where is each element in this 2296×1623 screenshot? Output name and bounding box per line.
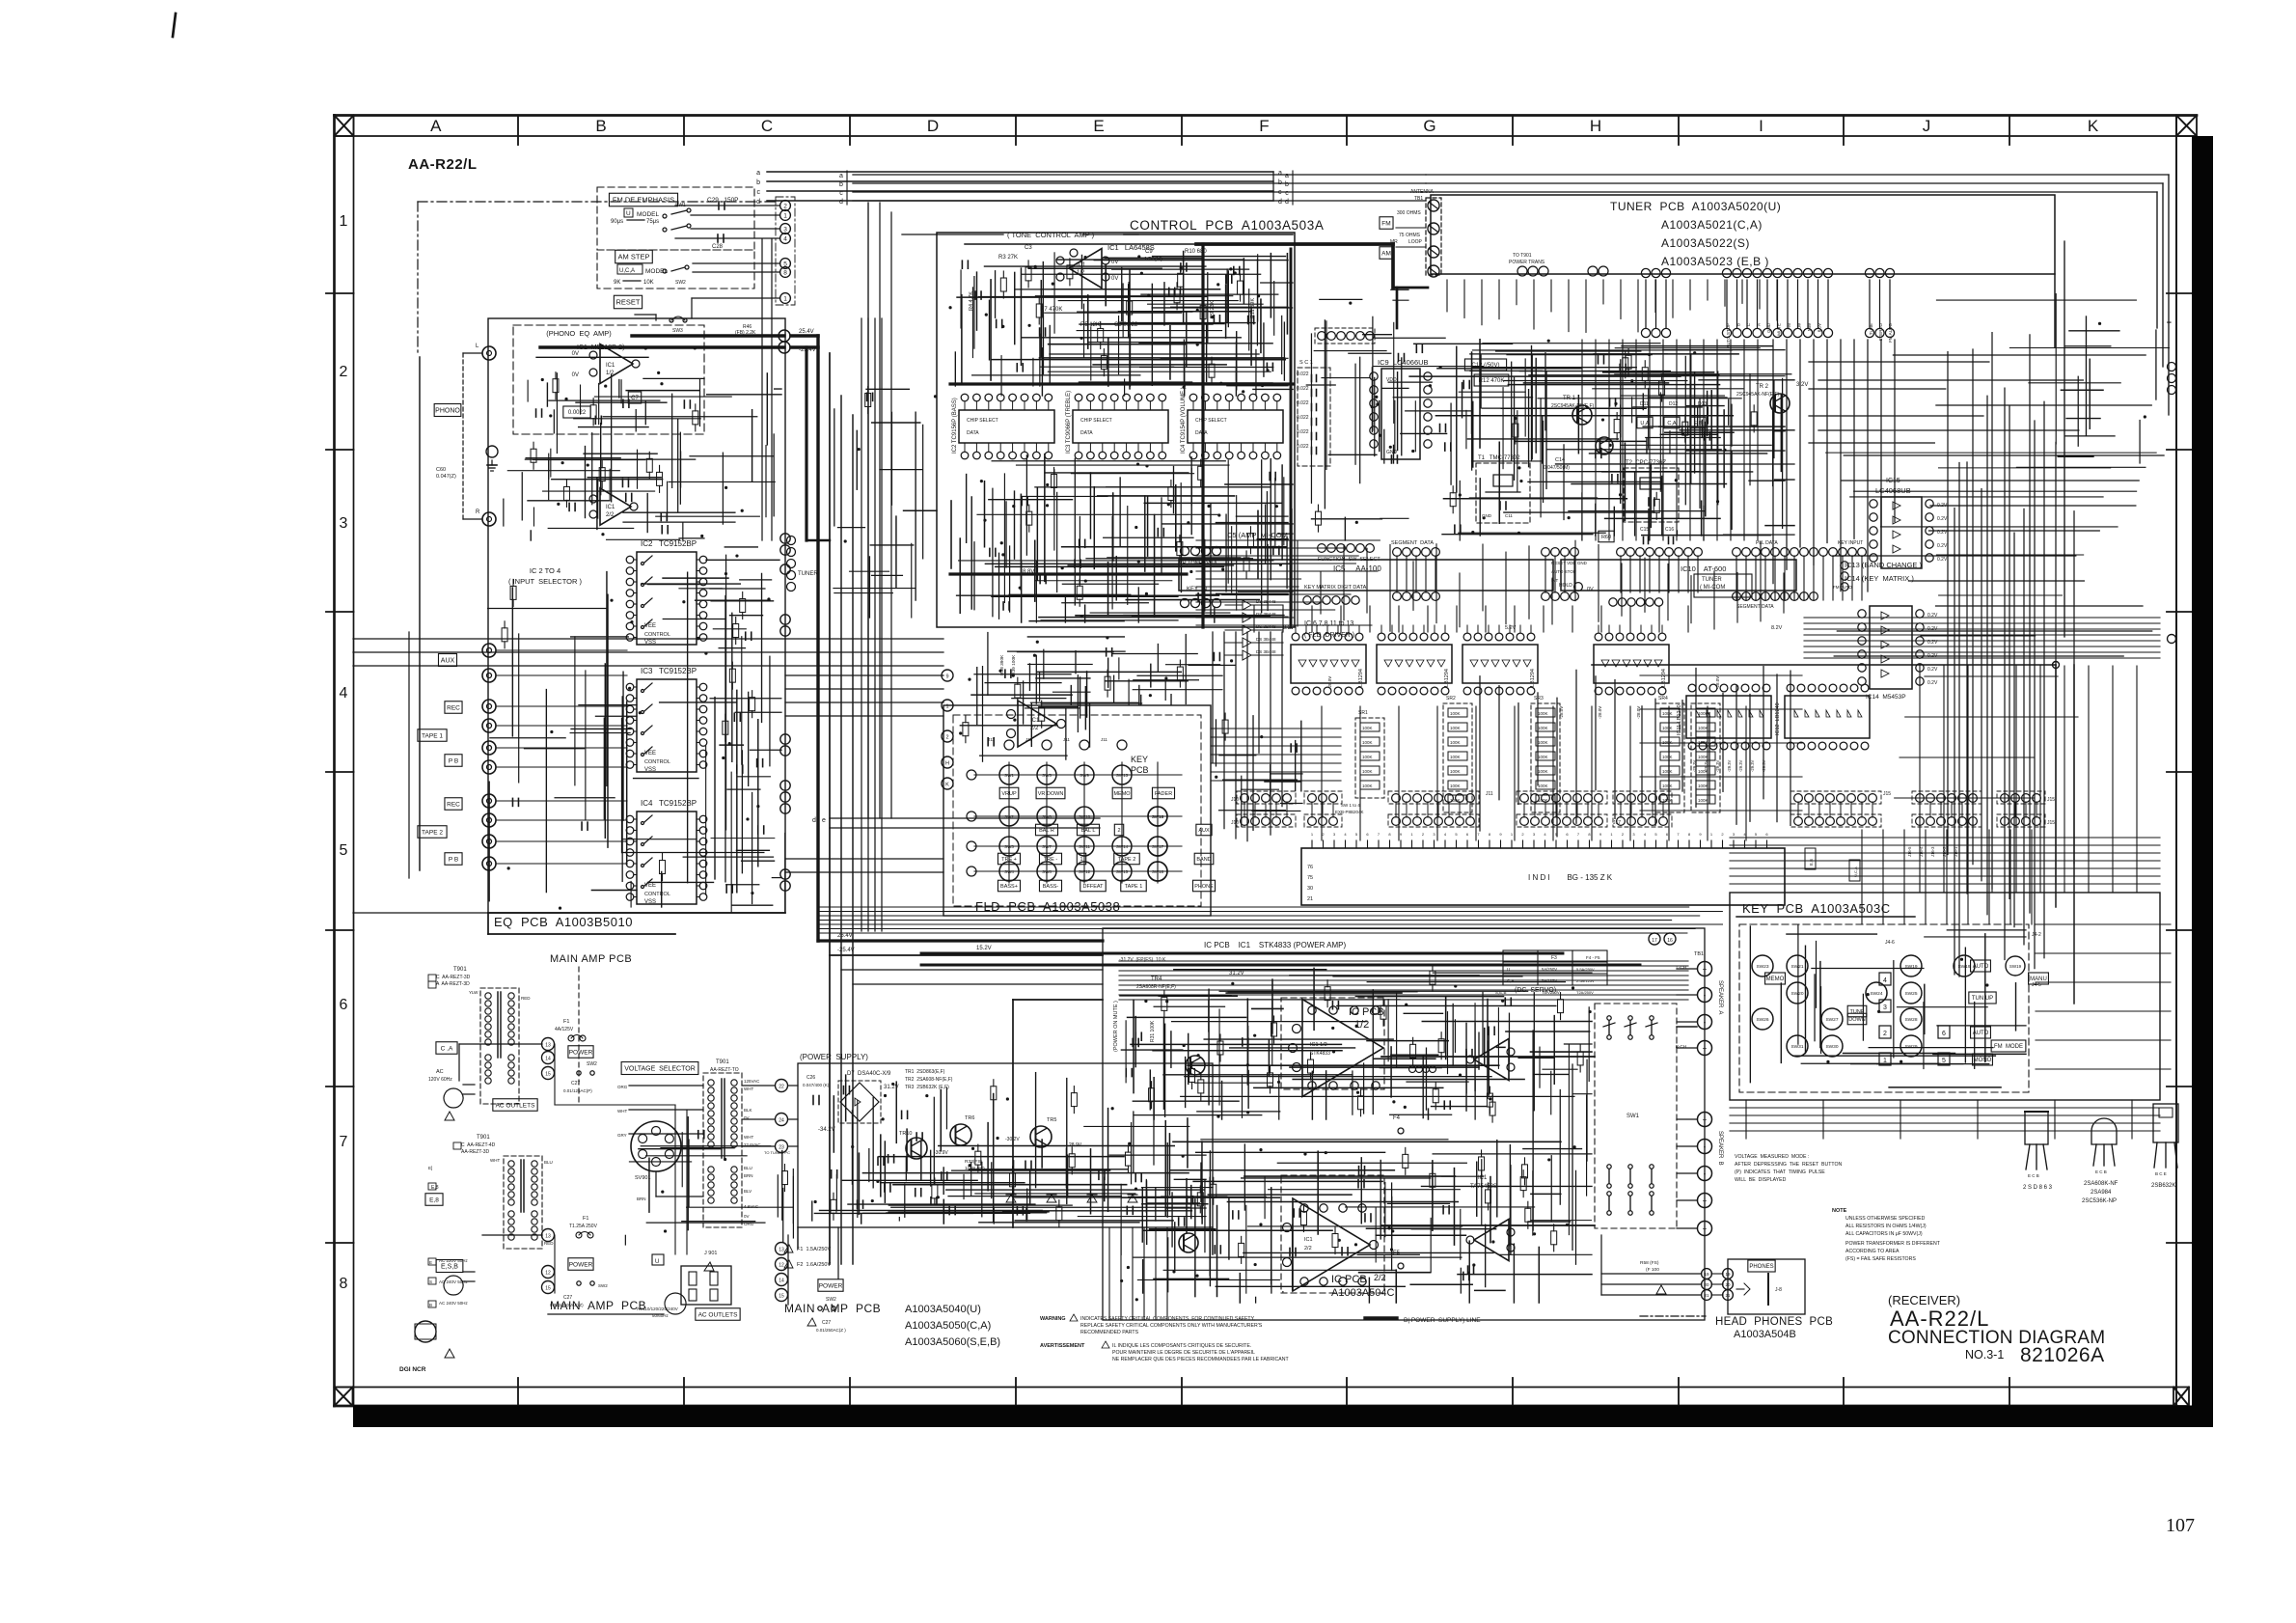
svg-text:(RECEIVER): (RECEIVER) (1888, 1293, 1960, 1307)
svg-text:F4: F4 (1393, 1115, 1401, 1121)
svg-text:REPLACE SAFETY CRITICAL COMPON: REPLACE SAFETY CRITICAL COMPONENTS ONLY … (1080, 1323, 1263, 1329)
svg-text:C15: C15 (1640, 527, 1649, 533)
svg-text:TAPE 2: TAPE 2 (422, 829, 443, 836)
svg-text:IC9 LC4066UB: IC9 LC4066UB (1378, 358, 1429, 367)
frame left inner line (353, 116, 355, 1407)
svg-text:A1003A5050(C,A): A1003A5050(C,A) (905, 1320, 991, 1332)
svg-text:R58 (FS): R58 (FS) (1640, 1260, 1659, 1266)
power amp opamp upper (1302, 1000, 1383, 1097)
svg-text:ACCORDING TO AREA: ACCORDING TO AREA (1845, 1249, 1900, 1254)
svg-text:EQ PCB A1003B5010: EQ PCB A1003B5010 (494, 915, 633, 929)
svg-text:(P) INDICATES THAT TIMING: (P) INDICATES THAT TIMING PULSE (1735, 1169, 1825, 1175)
PB label tape1 (445, 755, 462, 767)
svg-text:A1003A5040(U): A1003A5040(U) (905, 1304, 981, 1315)
TR1 transistor (1572, 405, 1592, 425)
svg-text:VEE: VEE (644, 623, 656, 629)
TR5 transistor (1030, 1126, 1052, 1147)
svg-text:T1.25A 250V: T1.25A 250V (569, 1224, 598, 1229)
relay SW1 dashed box (1595, 1004, 1677, 1228)
main amp interior extra (1533, 993, 1535, 1111)
IC LB1294 block at x=1427 (1377, 645, 1452, 683)
svg-text:0V: 0V (572, 351, 579, 357)
left edge wiring rows 6-8 (681, 1133, 683, 1187)
power supply interior extra (833, 1096, 834, 1152)
svg-text:S: S (429, 1279, 432, 1284)
svg-text:17: 17 (1652, 938, 1657, 944)
svg-text:WHT: WHT (490, 1158, 500, 1163)
bridge rectifier dashed (838, 1081, 881, 1123)
power supply component strings (981, 1162, 983, 1216)
frame left outer line (333, 116, 336, 1407)
svg-text:TUNER PCB A1003A5020(U): TUNER PCB A1003A5020(U) (1610, 200, 1781, 213)
svg-text:3: 3 (783, 227, 787, 234)
switch SW17 (1148, 837, 1167, 856)
svg-text:J: J (1923, 117, 1931, 135)
S marker (428, 1278, 436, 1284)
svg-text:15: 15 (545, 1072, 551, 1078)
svg-text:E,B: E,B (1809, 859, 1814, 866)
svg-text:F1 1.5A/250V: F1 1.5A/250V (797, 1247, 831, 1252)
PHONO input jacks (482, 346, 496, 360)
svg-text:SW25: SW25 (1904, 991, 1917, 997)
warn triangle plug (445, 1112, 454, 1120)
svg-text:0.0022: 0.0022 (568, 410, 587, 416)
reset switch SW3 (635, 314, 656, 316)
svg-text:STEREO: STEREO (1878, 323, 1883, 342)
speaker feed lines (1381, 1056, 1595, 1058)
svg-text:2/2: 2/2 (1304, 1246, 1312, 1252)
svg-text:PLL DATA: PLL DATA (1756, 540, 1778, 546)
switch SW30 (1821, 1035, 1843, 1057)
right switch circles (1148, 807, 1167, 826)
key function labels row3 (998, 853, 1020, 865)
svg-text:BLU: BLU (544, 1160, 553, 1165)
C,A label box (436, 1042, 457, 1055)
svg-text:BLK: BLK (744, 1108, 752, 1113)
FM auto stereo pins (1841, 562, 1848, 569)
switch SW18 (1148, 862, 1167, 881)
verticals FLD to INDI (1321, 706, 1323, 840)
svg-text:POWER: POWER (569, 1049, 593, 1056)
svg-text:-28.0V: -28.0V (1636, 706, 1641, 719)
switch SW12 (1075, 862, 1094, 881)
svg-text:15: 15 (545, 1286, 551, 1292)
svg-text:120V 60Hz: 120V 60Hz (428, 1077, 452, 1083)
svg-text:PCB: PCB (1131, 765, 1149, 775)
KEY PCB inner dashed (1739, 924, 2029, 1092)
mains wires lower (482, 1234, 542, 1236)
svg-text:SW1: SW1 (1626, 1114, 1640, 1119)
tuner bottom connector row J3 (1865, 268, 1873, 277)
svg-text:9K: 9K (614, 280, 620, 286)
key pcb feed lines from top (1861, 830, 1863, 924)
svg-text:75: 75 (1307, 875, 1313, 881)
svg-text:LB1294: LB1294 (1358, 669, 1364, 687)
svg-text:UNLESS OTHERWISE SPECIFIED: UNLESS OTHERWISE SPECIFIED (1845, 1216, 1926, 1222)
svg-text:19: 19 (1704, 1272, 1709, 1277)
wiring texture control interior extra (1032, 358, 1034, 386)
function sw select pins (1318, 544, 1326, 553)
svg-text:3: 3 (1883, 1004, 1887, 1011)
corner register mark bottom-left (335, 1388, 353, 1407)
transistor lower left (1179, 1233, 1198, 1252)
svg-text:WHT: WHT (744, 1087, 753, 1091)
svg-text:MEMO: MEMO (1766, 977, 1785, 982)
thick power rails main amp (921, 952, 1563, 955)
svg-text:100K: 100K (1698, 726, 1708, 730)
wires from EQ right edge to FLD (785, 674, 943, 676)
svg-text:SR3: SR3 (1534, 696, 1544, 701)
IC10 pin rows (1542, 548, 1550, 557)
svg-text:13: 13 (545, 1043, 551, 1049)
svg-text:VR DOWN: VR DOWN (1038, 791, 1064, 797)
svg-text:AUTO: AUTO (1973, 964, 1989, 970)
svg-text:E: E (1093, 117, 1104, 135)
FM label (1380, 217, 1393, 230)
a b c lines continue to right edge (1426, 174, 2169, 176)
speaker wires (1677, 968, 1697, 970)
verticals SR4 to connector rows (1641, 706, 1643, 816)
switch SW2 (999, 807, 1019, 826)
key in pins (1180, 598, 1189, 607)
AUX label (438, 654, 456, 667)
svg-text:FM AUTO: FM AUTO (1888, 323, 1893, 343)
svg-text:E]: E] (428, 1166, 432, 1170)
switch SW8 (1037, 862, 1056, 881)
IC block IC2 (959, 410, 1054, 443)
TAPE 2 label (418, 826, 447, 839)
svg-text:MAIN AMP PCB: MAIN AMP PCB (550, 953, 632, 965)
svg-text:0.047(Z): 0.047(Z) (436, 474, 456, 480)
warn triangle (1656, 1285, 1666, 1294)
a b c d bus lines (853, 174, 1426, 176)
svg-text:E,S,B: E,S,B (441, 1264, 458, 1271)
svg-text:BRN: BRN (637, 1197, 646, 1201)
svg-text:WARNING: WARNING (1040, 1316, 1066, 1322)
svg-text:MAIN AMP PCB: MAIN AMP PCB (550, 1299, 646, 1312)
svg-text:A: A (1757, 323, 1762, 326)
power node pins 25.4V (779, 330, 790, 342)
svg-text:T2A/250V: T2A/250V (1576, 990, 1594, 995)
right vertical wire bundle (1947, 352, 1949, 855)
svg-text:+: + (1703, 1115, 1708, 1124)
wiring texture tuner connectors to micom (1581, 340, 1583, 540)
switch SW26 (1752, 1008, 1773, 1030)
svg-text:BAL R: BAL R (1039, 828, 1054, 834)
power amp opamp lower (1293, 1198, 1370, 1291)
C12 R12 labels (1464, 359, 1506, 371)
transistor package 2SB632K (2153, 1104, 2178, 1142)
svg-text:VSS: VSS (644, 767, 656, 773)
svg-text:24: 24 (779, 1118, 784, 1124)
svg-text:A AA-REZT-3D: A AA-REZT-3D (436, 981, 470, 987)
svg-text:IC2 TC9152BP: IC2 TC9152BP (641, 539, 697, 548)
svg-text:-29.3V: -29.3V (1750, 759, 1755, 772)
thick vertical buses in control PCB (1201, 244, 1204, 627)
svg-text:8.5V: 8.5V (1818, 323, 1822, 332)
svg-text:a: a (839, 173, 843, 179)
scan shadow bar right edge (2192, 136, 2213, 1427)
svg-text:821026A: 821026A (2020, 1344, 2105, 1366)
svg-text:B: B (429, 1303, 432, 1307)
TAPE2 jacks (482, 794, 496, 808)
svg-text:0.2V: 0.2V (1937, 557, 1948, 563)
svg-text:300 OHMS: 300 OHMS (1397, 210, 1421, 216)
svg-text:WHT: WHT (617, 1109, 627, 1114)
svg-text:IC1: IC1 (1478, 1175, 1488, 1181)
svg-text:2/2: 2/2 (606, 512, 615, 518)
svg-text:R11 39K: R11 39K (1250, 298, 1256, 318)
bi power supply legend (1365, 1316, 1397, 1319)
svg-text:13: 13 (779, 1248, 784, 1253)
svg-text:SPEAKER A: SPEAKER A (1717, 980, 1723, 1014)
svg-text:100K: 100K (1662, 755, 1673, 759)
svg-text:POUR MAINTENIR LE DEGRE DE SEC: POUR MAINTENIR LE DEGRE DE SECURITE DE L… (1112, 1350, 1255, 1356)
svg-text:I N D I BG - 135 Z K: I N D I BG - 135 Z K (1528, 873, 1613, 882)
key pcb area horizontals extra (2036, 923, 2171, 925)
switch SW28 (1900, 1008, 1922, 1030)
svg-text:100K: 100K (1450, 726, 1461, 730)
svg-text:TUN UP: TUN UP (1972, 996, 1993, 1002)
svg-text:R31 100K: R31 100K (1150, 1020, 1156, 1042)
svg-text:C: C (761, 117, 773, 135)
svg-text:100K: 100K (1450, 769, 1461, 774)
wires upper mains (459, 1043, 542, 1045)
switch SW10 (1075, 807, 1094, 826)
IC LB1294 block at x=1516 (1462, 645, 1538, 683)
svg-text:J4-5: J4-5 (2032, 982, 2041, 988)
switch SW11 (1075, 837, 1094, 856)
svg-text:100K: 100K (1698, 784, 1708, 788)
svg-text:B: B (595, 117, 606, 135)
relay contacts C (1608, 1197, 1610, 1210)
sw19 upper right (2006, 956, 2025, 976)
svg-text:F1: F1 (563, 1019, 569, 1025)
verticals EQ to row6 (761, 239, 763, 540)
svg-text:6: 6 (1942, 1031, 1946, 1037)
horizontal bundle above main amp extra (820, 906, 1689, 908)
svg-text:1: 1 (945, 704, 948, 710)
wiring texture tuner lower extra (1749, 373, 1751, 484)
svg-text:TUNER: TUNER (1702, 577, 1722, 583)
svg-text:2: 2 (1883, 1031, 1887, 1037)
svg-text:AC 220V 50Hz: AC 220V 50Hz (439, 1258, 469, 1263)
svg-text:J15: J15 (2047, 820, 2055, 826)
row3-4 horizontals D-E columns (1196, 539, 1380, 541)
warn triangle lower (445, 1349, 454, 1358)
svg-text:0.022: 0.022 (1297, 371, 1309, 377)
svg-text:CONTROL: CONTROL (644, 759, 670, 765)
power supply outline (798, 1063, 1213, 1227)
control IC wiring below (1265, 505, 1267, 563)
svg-text:DATA: DATA (1080, 430, 1093, 436)
svg-text:IL INDIQUE LES COMPOSANTS CRIT: IL INDIQUE LES COMPOSANTS CRITIQUES DE S… (1112, 1343, 1251, 1349)
svg-text:MW: MW (1807, 322, 1812, 331)
B marker AC 240V (428, 1301, 436, 1307)
switch SW6 (1037, 807, 1056, 826)
svg-text:E C B: E C B (2028, 1173, 2039, 1178)
svg-text:EXB-P8B204K: EXB-P8B204K (1335, 810, 1364, 814)
antenna terminal strip (1426, 198, 1441, 275)
svg-text:4: 4 (1883, 977, 1887, 984)
svg-text:KEY PCB A1003A503C: KEY PCB A1003A503C (1742, 901, 1891, 916)
svg-text:(POWER ON MUTE ): (POWER ON MUTE ) (1113, 1001, 1119, 1052)
headphone jack symbol (1767, 1274, 1769, 1305)
-8.4V rail thick (950, 382, 1293, 385)
switch SW4 (999, 862, 1019, 881)
svg-text:SW3: SW3 (672, 328, 683, 334)
svg-text:C,A: C,A (1667, 421, 1677, 426)
svg-text:LB1294: LB1294 (1444, 669, 1450, 687)
svg-text:SEGMENT DATA: SEGMENT DATA (1736, 604, 1774, 610)
power rails into main amp (1013, 999, 1103, 1001)
TR4 transistor circle (1186, 1056, 1205, 1075)
feed to key pcb from micom (1804, 617, 2160, 619)
svg-text:b: b (839, 181, 843, 188)
verticals between power supply and main amp (1108, 1227, 1110, 1320)
svg-text:100K: 100K (1362, 726, 1373, 730)
tuner connector verticals extra (1446, 280, 1448, 312)
svg-text:125VAC: 125VAC (744, 1079, 760, 1084)
svg-text:(FS) = FAIL SAFE RESISTORS: (FS) = FAIL SAFE RESISTORS (1845, 1256, 1916, 1262)
transformer secondary coil (708, 1167, 714, 1172)
numbered key boxes (1879, 973, 1891, 985)
svg-text:C28: C28 (712, 244, 724, 250)
E marker AC 220V (428, 1258, 436, 1265)
E,S,B label box (436, 1260, 463, 1273)
diode cluster D11 D12 D13 (1728, 399, 1730, 425)
svg-text:CONTROL: CONTROL (644, 892, 670, 897)
svg-text:SW2: SW2 (587, 1061, 597, 1067)
svg-text:B| POWER SUPPLY) LINE: B| POWER SUPPLY) LINE (1404, 1317, 1481, 1324)
svg-text:FM: FM (1381, 220, 1390, 227)
verticals between micom rows (1297, 541, 1298, 626)
svg-text:4.6VAC: 4.6VAC (744, 1204, 759, 1209)
svg-text:A1003A5021(C,A): A1003A5021(C,A) (1661, 218, 1763, 232)
wiring right of FLD box (1157, 644, 1159, 671)
svg-text:R: R (476, 509, 480, 515)
svg-text:IC4 TC9154P (VOLUME ): IC4 TC9154P (VOLUME ) (1181, 387, 1187, 454)
AM label (1380, 247, 1393, 260)
svg-text:-29.3V: -29.3V (1727, 759, 1732, 772)
svg-text:8.2V: 8.2V (1771, 625, 1783, 631)
svg-text:50/60Hz: 50/60Hz (652, 1313, 670, 1318)
svg-text:F1: F1 (583, 1216, 588, 1222)
right columns hatch extra2 (1936, 554, 2083, 556)
svg-text:TAPE 1: TAPE 1 (1125, 884, 1143, 890)
wire top feed C29 line (418, 201, 776, 203)
svg-text:90μs: 90μs (611, 219, 623, 225)
svg-text:3.2V: 3.2V (1796, 382, 1808, 388)
svg-text:MEMO: MEMO (1113, 791, 1131, 797)
svg-text:WHT: WHT (744, 1135, 753, 1140)
svg-text:BASS+: BASS+ (1000, 884, 1018, 890)
svg-text:J11: J11 (988, 737, 995, 742)
svg-text:12: 12 (779, 1263, 784, 1269)
svg-text:75 OHMS: 75 OHMS (1399, 233, 1421, 238)
svg-text:H: H (1590, 117, 1601, 135)
svg-text:E: E (429, 1260, 432, 1265)
svg-text:IC1: IC1 (606, 363, 615, 369)
AC plug symbol lower (444, 1276, 463, 1295)
switch SW9 (1075, 765, 1094, 784)
svg-text:100K: 100K (1450, 755, 1461, 759)
svg-text:21: 21 (1704, 1293, 1709, 1298)
svg-text:R3 27K: R3 27K (998, 255, 1018, 261)
svg-text:1/2: 1/2 (1077, 270, 1085, 276)
svg-text:C60: C60 (436, 467, 446, 473)
bus lines left of control (861, 318, 862, 931)
svg-text:LOOP: LOOP (1408, 239, 1423, 245)
svg-text:PHONE: PHONE (1194, 884, 1214, 890)
switch SW1 (999, 765, 1019, 784)
svg-text:2/2: 2/2 (1374, 1273, 1386, 1282)
svg-text:CHIP SELECT: CHIP SELECT (1080, 418, 1112, 424)
upper transformer dashed box (480, 988, 519, 1104)
svg-text:KEY INPUT: KEY INPUT (1838, 540, 1863, 546)
pins on control-FLD boundary (942, 670, 953, 681)
pins 13 14 15 upper (542, 1038, 555, 1051)
svg-text:-: - (1704, 1169, 1707, 1178)
svg-text:REC: REC (447, 801, 460, 808)
svg-text:SR4: SR4 (1658, 696, 1668, 701)
svg-text:c: c (757, 189, 761, 196)
svg-text:U: U (626, 210, 631, 217)
svg-text:MAIN AMP PCB: MAIN AMP PCB (784, 1302, 881, 1315)
svg-text:+: + (1703, 1044, 1708, 1053)
svg-text:a: a (1278, 170, 1282, 177)
grid column separator ticks top (517, 116, 519, 146)
svg-text:100K: 100K (1698, 798, 1708, 803)
svg-text:SW26: SW26 (1756, 1017, 1768, 1023)
svg-text:A1003A5022(S): A1003A5022(S) (1661, 236, 1750, 250)
verticals SR3 region extra (1479, 676, 1481, 831)
svg-text:0.2V: 0.2V (1927, 680, 1938, 686)
switch SW13 (1112, 765, 1132, 784)
svg-text:b: b (1278, 179, 1282, 186)
svg-text:0.022: 0.022 (1297, 386, 1309, 392)
svg-text:a: a (756, 170, 760, 177)
svg-text:J16-1: J16-1 (1954, 846, 1958, 857)
svg-text:FM DE EMPHASIS: FM DE EMPHASIS (613, 196, 674, 205)
svg-text:TAPE 1: TAPE 1 (422, 732, 443, 739)
amp lower mesh (1142, 1260, 1144, 1293)
svg-text:IC14 M5453P: IC14 M5453P (1866, 694, 1906, 701)
J6 pins right edge (2168, 363, 2176, 371)
left long verticals from jacks to bottom (419, 357, 421, 870)
svg-text:100K: 100K (1662, 769, 1673, 774)
svg-text:+: + (1703, 1224, 1708, 1233)
REC label tape1 (445, 701, 462, 714)
svg-text:VSS: VSS (644, 899, 656, 905)
SC1 cap array dashed (1298, 368, 1330, 466)
svg-text:F4 - F5: F4 - F5 (1586, 955, 1600, 960)
barrel plug symbol (415, 1321, 436, 1342)
AC plug symbol upper (444, 1088, 463, 1108)
svg-text:9: 9 (945, 674, 948, 680)
svg-text:B C E: B C E (2155, 1171, 2167, 1176)
svg-text:HEAD PHONES PCB: HEAD PHONES PCB (1715, 1316, 1833, 1328)
KEY PCB outer outline (1730, 893, 2160, 1100)
R60 100R (1599, 531, 1614, 542)
svg-text:TUNER: TUNER (798, 571, 818, 577)
svg-text:CHIP SELECT: CHIP SELECT (1195, 418, 1227, 424)
corner register mark top-right (2176, 116, 2197, 137)
svg-text:21: 21 (1307, 896, 1313, 902)
svg-text:100K: 100K (1698, 769, 1708, 774)
svg-text:100K: 100K (1450, 711, 1461, 716)
TR10 transistor (906, 1138, 927, 1159)
